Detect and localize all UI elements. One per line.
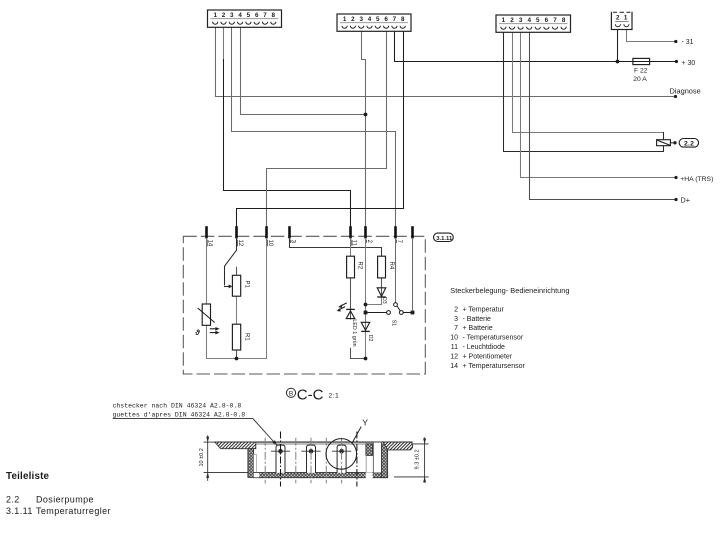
wire pin14 to sensor — [206, 238, 208, 304]
pin 12 bar — [235, 226, 238, 238]
svg-text:6: 6 — [545, 17, 549, 24]
wire R1 to node — [236, 350, 238, 359]
resistor R4 — [378, 256, 395, 278]
contact pin 1 section — [271, 445, 290, 473]
svg-text:2: 2 — [454, 306, 458, 313]
svg-text:8: 8 — [562, 17, 566, 24]
svg-text:S1: S1 — [390, 320, 396, 326]
housing top surface line — [215, 441, 413, 443]
svg-text:7: 7 — [454, 325, 458, 332]
svg-text:+ 30: + 30 — [682, 60, 696, 67]
centerlines gray — [265, 438, 341, 484]
svg-text:5: 5 — [376, 16, 380, 23]
svg-text:2: 2 — [222, 12, 226, 19]
P1 stub top — [236, 267, 238, 275]
svg-text:20 A: 20 A — [633, 76, 647, 83]
wire switch right contact to pin8 wire — [403, 312, 412, 314]
svg-text:- 31: - 31 — [682, 39, 694, 46]
terminal dot -31 — [674, 40, 677, 43]
slab gap at pin 4 position — [366, 472, 373, 478]
wire R2 to LED1 — [350, 278, 352, 319]
svg-text:10: 10 — [267, 240, 273, 247]
section trace lines black — [280, 432, 282, 487]
fuse F22 20A — [633, 58, 650, 83]
wire pin11 to R2 — [350, 238, 352, 256]
svg-text:+HA (TRS): +HA (TRS) — [680, 176, 713, 183]
svg-text:14: 14 — [207, 240, 213, 247]
pin 7 bar — [394, 226, 397, 238]
node J5 switch feed — [364, 311, 368, 315]
terminal dot D+ — [674, 198, 677, 201]
wire LED1 to node J4 — [351, 319, 366, 359]
wiper arrow into P1 — [225, 286, 230, 288]
svg-text:10 ±0.2: 10 ±0.2 — [199, 448, 205, 466]
svg-text:B: B — [289, 390, 293, 397]
detail circle Y — [326, 439, 357, 470]
right flange (hatched) — [383, 442, 412, 450]
switch S1 — [387, 303, 404, 327]
parts list (Teileliste) — [6, 471, 111, 516]
wire X1 pin4 to node J1 — [241, 27, 366, 115]
wire pump vertical — [663, 133, 665, 152]
housing inner shoulder line — [256, 443, 382, 445]
svg-text:guettes d'apres DIN 46324 A2.8: guettes d'apres DIN 46324 A2.8-0.8 — [113, 411, 246, 418]
svg-text:2: 2 — [510, 17, 514, 24]
svg-text:11: 11 — [451, 344, 458, 351]
wire X2 pin3 to controller pin 2 — [362, 31, 366, 226]
svg-text:3: 3 — [454, 316, 458, 323]
svg-text:1: 1 — [343, 16, 347, 23]
wire X1 pin2 to controller pin 11 — [224, 60, 351, 227]
wire pin7 to switch contact — [395, 238, 397, 302]
svg-text:- Leuchtdiode: - Leuchtdiode — [463, 344, 506, 351]
temperature controller dashed enclosure 3.1.11 — [183, 236, 425, 374]
svg-text:+ Batterie: + Batterie — [463, 325, 493, 332]
resistor R2 — [347, 256, 363, 278]
svg-text:chstecker nach DIN 46324 A2.8-: chstecker nach DIN 46324 A2.8-0.8 — [113, 402, 242, 409]
svg-text:LED 1 grün: LED 1 grün — [351, 319, 357, 346]
svg-text:7: 7 — [393, 16, 397, 23]
svg-text:Teileliste: Teileliste — [6, 471, 50, 482]
annotation text DIN 46324 — [113, 402, 246, 418]
wire D2 to node J4 — [365, 331, 367, 358]
svg-text:6: 6 — [255, 12, 259, 19]
pin 3 bar — [288, 226, 291, 238]
svg-text:- Batterie: - Batterie — [463, 316, 492, 323]
svg-text:Diagnose: Diagnose — [670, 87, 701, 96]
node J7 bottom left — [235, 357, 239, 361]
wire D3 to pin2 wire — [366, 297, 382, 304]
svg-text:5: 5 — [536, 17, 540, 24]
annotation leader line — [113, 419, 276, 445]
svg-text:Y: Y — [362, 418, 368, 428]
svg-text:6: 6 — [384, 16, 388, 23]
svg-text:1: 1 — [213, 12, 217, 19]
svg-text:3: 3 — [230, 12, 234, 19]
diode D2 — [361, 322, 373, 341]
wire X3 pin1 to pump bottom — [504, 32, 664, 151]
wire sensor bottom to node — [207, 325, 267, 358]
svg-text:D2: D2 — [367, 335, 373, 342]
wire pin2 internal — [365, 238, 367, 331]
reference oval 2.2 (Dosierpumpe) — [679, 139, 698, 148]
dimension 9.3 +-0.2 right — [394, 437, 429, 482]
svg-text:14: 14 — [450, 363, 458, 370]
contact pin 2 section — [301, 445, 320, 473]
left wall notch — [254, 454, 257, 472]
svg-text:Dosierpumpe: Dosierpumpe — [36, 495, 94, 505]
wire X3 pin2 to pump top — [513, 32, 664, 132]
wire pin10 internal — [266, 238, 268, 358]
wire X1 pin2 upper segment — [223, 27, 225, 60]
pin 2 bar — [364, 226, 367, 238]
pin 14 bar — [205, 226, 208, 238]
wire X3 pin4 to D+ — [530, 32, 677, 199]
node J1 — [364, 113, 368, 117]
wire X4 pin1 to -31 — [627, 29, 676, 42]
svg-text:3: 3 — [359, 16, 363, 23]
svg-text:2: 2 — [616, 14, 620, 21]
pin4 divider block (hatched) — [366, 444, 373, 456]
svg-text:7: 7 — [553, 17, 557, 24]
svg-text:2:1: 2:1 — [329, 393, 340, 400]
svg-text:3.1.11: 3.1.11 — [436, 236, 453, 242]
svg-text:3: 3 — [519, 17, 523, 24]
svg-text:R1: R1 — [244, 333, 250, 341]
wire pin8 internal — [412, 238, 414, 310]
terminal dot Diagnose — [674, 95, 677, 98]
svg-text:3.1.11: 3.1.11 — [6, 506, 33, 516]
diode D3 — [377, 288, 387, 304]
svg-text:Steckerbelegung- Bedieneinrich: Steckerbelegung- Bedieneinrichtung — [450, 286, 569, 295]
svg-text:8: 8 — [401, 16, 405, 23]
svg-text:12: 12 — [237, 240, 243, 247]
wire pin12 to wiper — [225, 238, 237, 284]
resistor R1 — [232, 324, 249, 350]
svg-text:5: 5 — [247, 12, 251, 19]
svg-text:2.2: 2.2 — [6, 495, 20, 505]
controller pin number labels — [207, 240, 402, 247]
wire X2 pin8 to controller pin 12 — [237, 31, 404, 226]
terminal dot +HA — [674, 176, 677, 179]
svg-text:+ Temperatur: + Temperatur — [463, 306, 505, 313]
temperature sensor (NTC) — [194, 304, 219, 337]
wire X2 pin6 to controller pin 10 — [267, 31, 387, 226]
svg-text:D+: D+ — [681, 195, 690, 204]
dosing pump plug symbol — [657, 140, 677, 146]
svg-text:Temperaturregler: Temperaturregler — [36, 506, 111, 516]
svg-text:4: 4 — [368, 16, 372, 23]
svg-text:2.2: 2.2 — [684, 141, 694, 148]
pin assignment list (Steckerbelegung) — [450, 286, 569, 370]
svg-text:1: 1 — [502, 17, 506, 24]
terminal dot +30 — [675, 60, 678, 63]
svg-text:4: 4 — [527, 17, 531, 24]
wire R4 to D3 — [381, 278, 383, 297]
connector X2 (8-pin, top middle) — [337, 14, 411, 31]
svg-text:R2: R2 — [357, 262, 363, 270]
reference oval 3.1.11 (Temperaturregler) — [434, 233, 454, 242]
svg-text:+ Potentiometer: + Potentiometer — [463, 354, 513, 361]
svg-text:9.3 ±0.2: 9.3 ±0.2 — [414, 449, 420, 469]
wire X1 pin1 to Diagnose — [216, 27, 676, 97]
svg-text:- Temperatursensor: - Temperatursensor — [463, 335, 524, 342]
wire node J5 to switch left contact — [368, 312, 387, 314]
potentiometer P1 — [232, 275, 249, 296]
contact pin 3 section — [332, 445, 351, 473]
svg-text:+ Temperatursensor: + Temperatursensor — [463, 363, 526, 370]
pin 10 bar — [265, 226, 268, 238]
svg-text:C-C: C-C — [297, 387, 324, 404]
wire pin3 to R4 — [290, 238, 382, 256]
wire P1 to R1 — [236, 296, 238, 324]
svg-text:ϑ: ϑ — [194, 328, 200, 337]
svg-text:10: 10 — [450, 335, 458, 342]
LED1 green — [337, 303, 357, 348]
bottom slab (cross-hatched) — [254, 473, 388, 478]
svg-text:11: 11 — [351, 240, 357, 247]
section view C-C title — [286, 387, 339, 404]
svg-text:8: 8 — [272, 12, 276, 19]
node J6 — [411, 311, 415, 315]
dimension 10 +-0.2 left — [204, 435, 248, 481]
pin 11 bar — [349, 226, 352, 238]
svg-text:P1: P1 — [244, 281, 250, 289]
connector X1 (8-pin, top left) — [208, 10, 282, 27]
wiper arrowhead — [229, 284, 233, 288]
wire X3 pin3 to +HA (TRS) — [521, 32, 677, 177]
node J4 — [364, 357, 368, 361]
cavity channel — [373, 442, 381, 473]
svg-text:1: 1 — [624, 14, 628, 21]
right wall (cross-hatched) — [382, 444, 388, 478]
left flange (hatched) — [215, 442, 256, 449]
node J3 D3-pin2 — [364, 303, 368, 307]
svg-text:4: 4 — [238, 12, 242, 19]
wire X2 pin7 to +30 line — [395, 31, 677, 61]
left wall (cross-hatched) — [248, 449, 254, 478]
node J2 on +30 line — [616, 60, 620, 64]
leader to Y — [352, 427, 361, 443]
connector X3 (8-pin, top right) — [496, 15, 571, 32]
controller pin bars — [207, 226, 413, 238]
svg-text:R4: R4 — [388, 262, 394, 270]
pin 8 bar unlabeled — [411, 226, 414, 238]
wire X4 pin2 to +30 junction — [617, 29, 619, 62]
svg-text:12: 12 — [450, 354, 458, 361]
svg-text:F 22: F 22 — [634, 68, 648, 75]
connector X4 (2-pin, top right) — [611, 12, 632, 29]
wire X1 pin3 to controller pin 7 — [232, 27, 396, 227]
svg-text:D3: D3 — [381, 297, 387, 304]
svg-text:7: 7 — [263, 12, 267, 19]
svg-text:2: 2 — [351, 16, 355, 23]
